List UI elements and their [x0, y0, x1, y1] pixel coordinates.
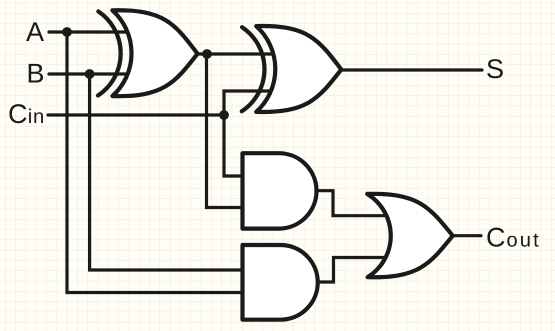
label Cout: [487, 228, 538, 247]
wire S output: [341, 68, 482, 71]
label A: [26, 22, 44, 41]
node XOR1 output junction: [202, 49, 212, 59]
wire AND1 output to OR top input: [317, 191, 391, 216]
wire B input: [49, 72, 130, 75]
xor-gate U1 input arc: [98, 11, 121, 95]
label S: [487, 59, 503, 78]
node B junction: [85, 69, 95, 79]
wire Cin branch up to XOR2 bottom input: [224, 91, 277, 115]
or-gate U5: [367, 194, 453, 277]
wire Cin branch down to AND1 top input: [224, 115, 243, 176]
wire B branch to AND2 top input: [90, 74, 243, 270]
and-gate U3: [243, 153, 317, 228]
xor-gate U2 input arc: [242, 27, 265, 111]
wire A input: [49, 30, 130, 33]
wire XOR1 output to XOR2 top input: [198, 52, 277, 55]
xor-gate U1 body: [112, 10, 197, 96]
label B: [29, 64, 43, 83]
wire Cout output: [453, 234, 482, 237]
label Cin: [9, 104, 43, 123]
wire XOR1 output branch to AND1 bottom input: [207, 54, 243, 208]
wire Cin input: [48, 113, 224, 116]
node Cin junction: [219, 110, 229, 120]
wire A branch to AND2 bottom input: [67, 32, 243, 293]
wire AND2 output to OR bottom input: [318, 258, 391, 283]
node A junction: [62, 27, 72, 37]
and-gate U4: [243, 245, 318, 320]
xor-gate U2 body: [256, 26, 341, 112]
